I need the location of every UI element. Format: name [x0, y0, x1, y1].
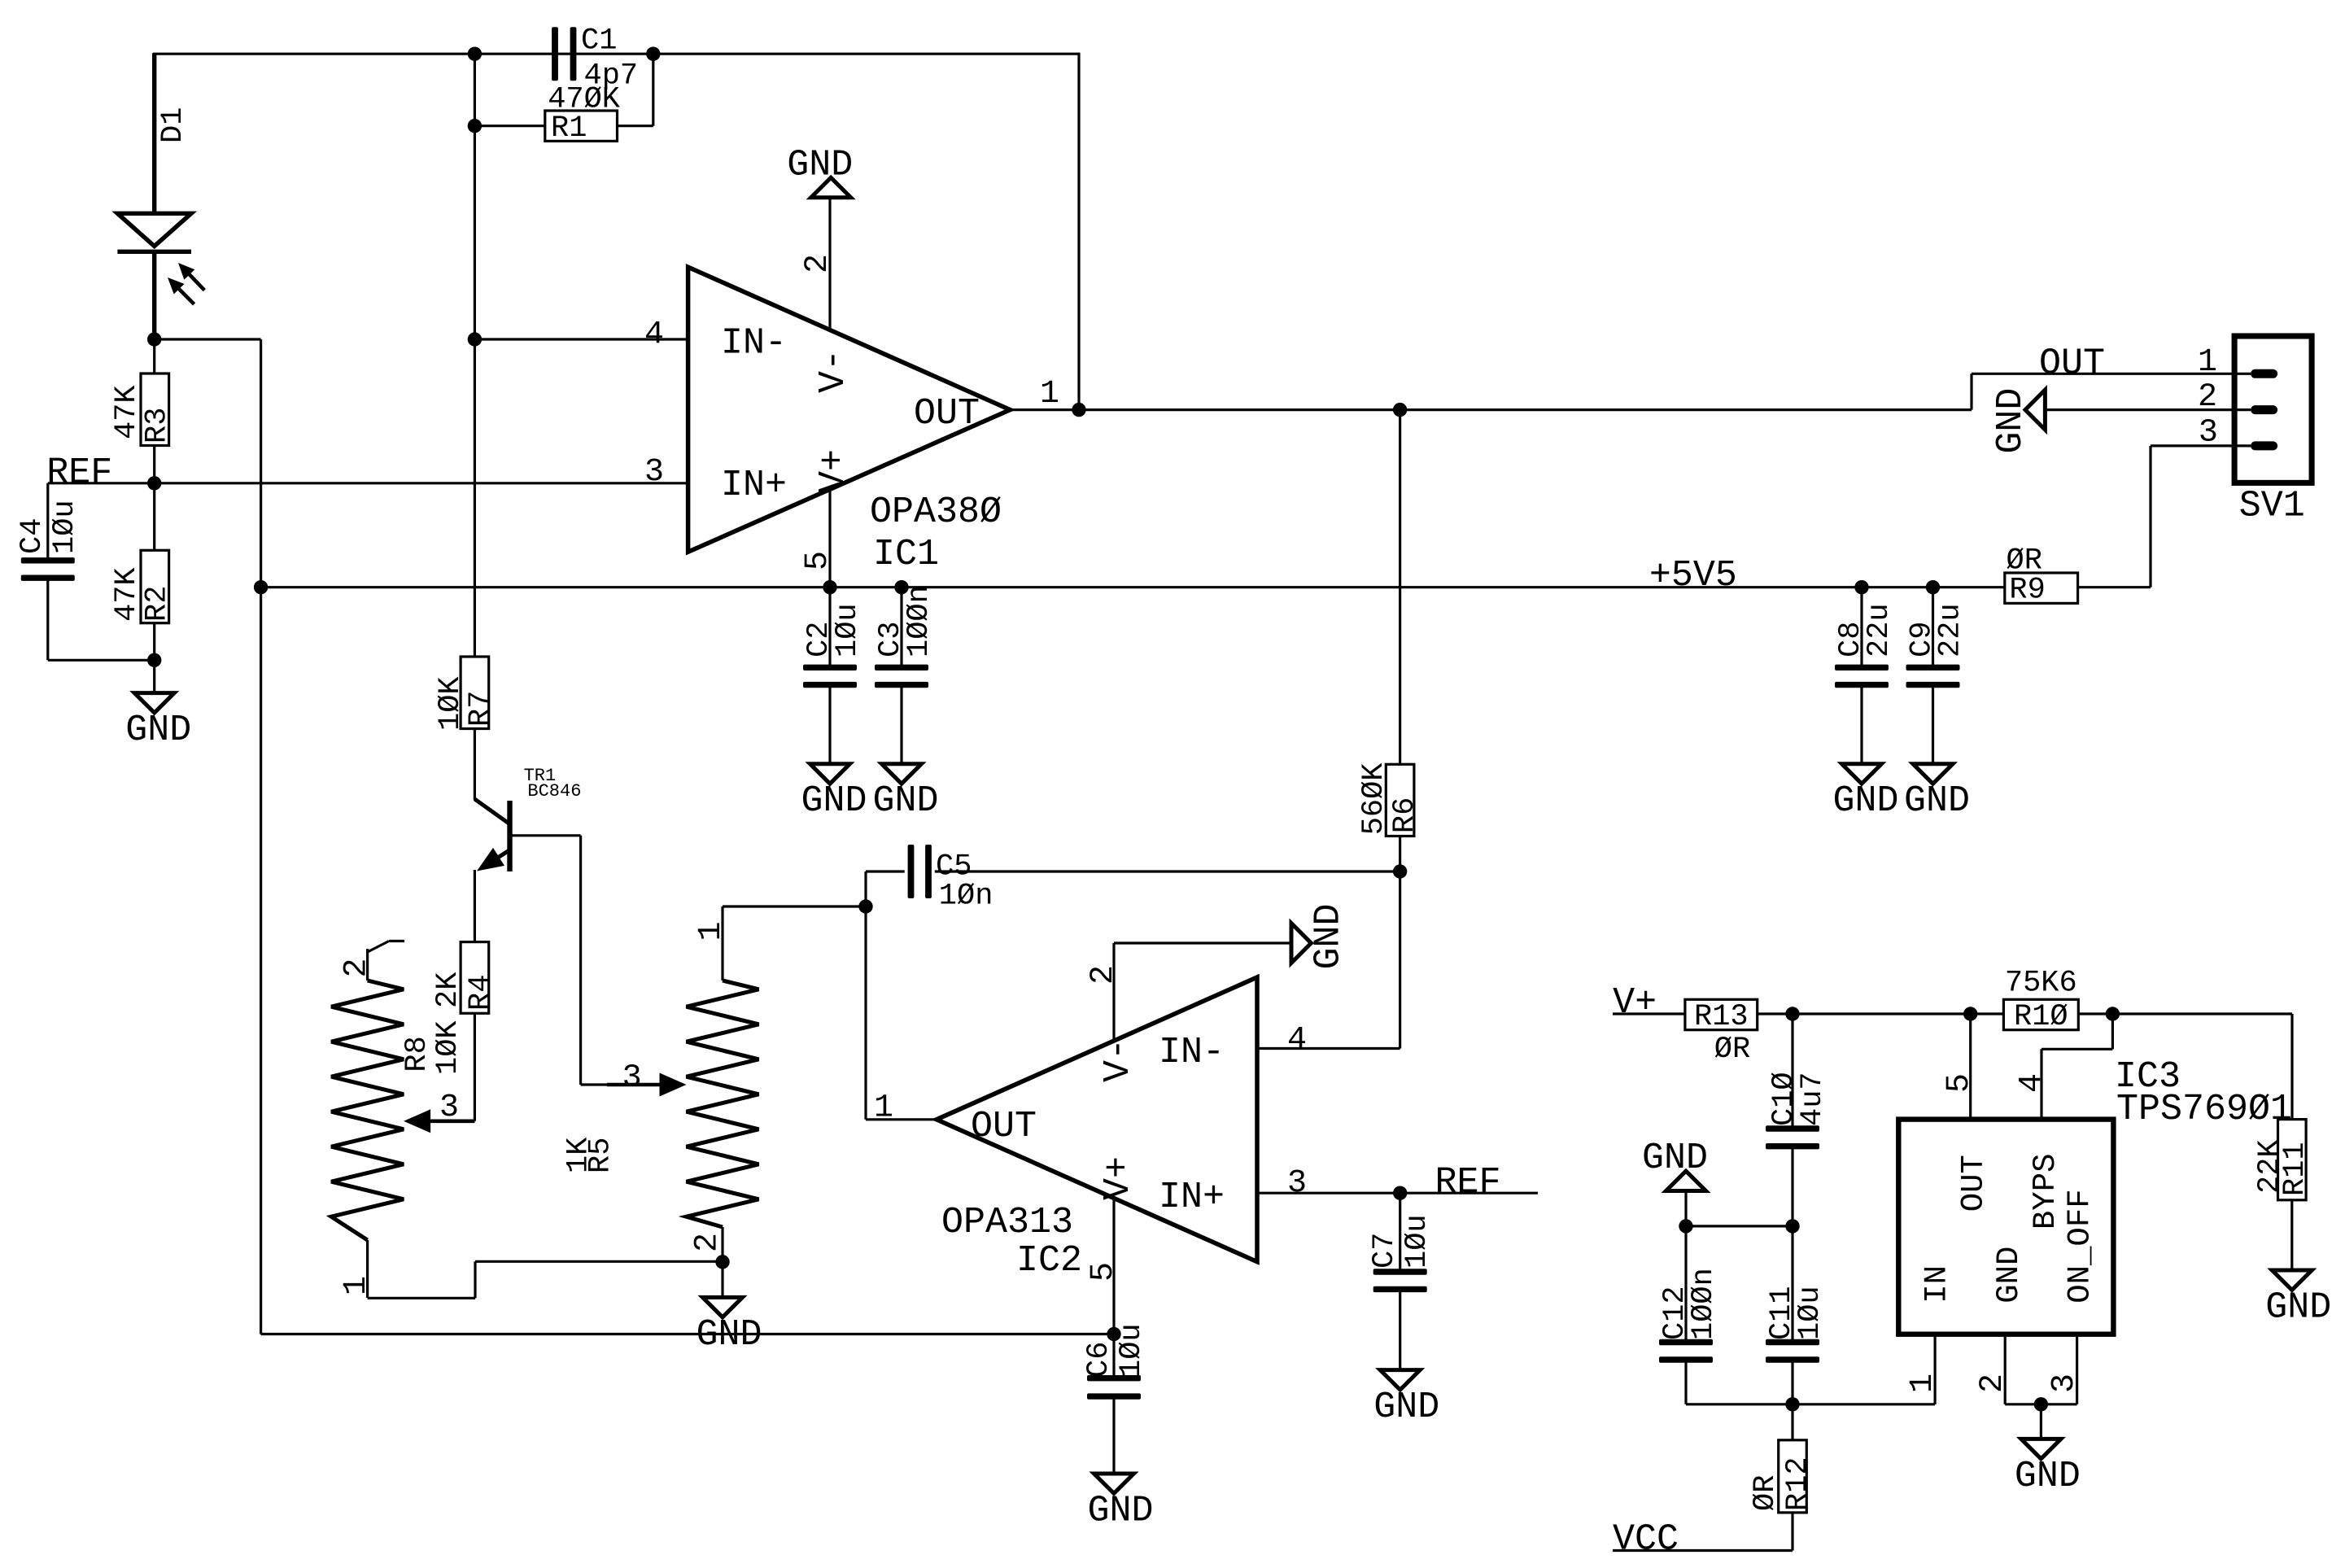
svg-text:1Øu: 1Øu: [1400, 1214, 1435, 1269]
pin number 4 of IC2: [1287, 1022, 1307, 1059]
capacitor C8 22u: [1834, 587, 1897, 764]
resistor R13 0R: [1685, 999, 1758, 1067]
pin label IN+ of IC2: [1159, 1177, 1225, 1218]
capacitor C10 4u7: [1766, 1014, 1830, 1226]
svg-text:GND: GND: [1087, 1490, 1153, 1531]
pin number 4 of IC1: [644, 317, 664, 353]
resistor R11 22K: [2253, 1120, 2312, 1200]
svg-text:OUT: OUT: [2039, 343, 2105, 384]
pin label IN- of IC2: [1159, 1032, 1225, 1073]
svg-text:C4: C4: [15, 518, 50, 554]
svg-text:GND: GND: [1642, 1138, 1708, 1179]
svg-text:GND: GND: [125, 710, 191, 751]
svg-text:R3: R3: [141, 408, 175, 443]
wire IC2 pin 3 to REF: [1257, 1192, 1538, 1195]
junction bus / C9: [1926, 580, 1940, 594]
svg-text:4: 4: [2014, 1073, 2050, 1093]
junction IC2 pin5 / C6: [1107, 1327, 1120, 1341]
junction VCC rail / R12: [1785, 1397, 1799, 1411]
junction R2 bottom / C4: [147, 653, 161, 667]
junction REF / C7: [1393, 1186, 1407, 1200]
capacitor C9 22u: [1906, 587, 1968, 764]
wire VCC rail to IC3 pin 1: [1686, 1403, 1935, 1405]
svg-text:4u7: 4u7: [1796, 1072, 1830, 1126]
capacitor C1 4p7: [552, 24, 638, 94]
svg-text:1Øn: 1Øn: [939, 880, 993, 914]
capacitor C7 10u: [1368, 1193, 1435, 1369]
junction bus / C8: [1854, 580, 1868, 594]
ground below R11: [2265, 1270, 2331, 1328]
svg-text:3: 3: [2199, 415, 2218, 452]
svg-text:GND: GND: [872, 780, 938, 822]
svg-text:GND: GND: [1990, 388, 2032, 454]
wire R5 pin 1 to C5 node: [723, 905, 866, 907]
pin number 2 of IC1 (rotated): [800, 254, 836, 273]
svg-text:4: 4: [1287, 1022, 1307, 1059]
pin number 2 of IC3 (rotated): [1975, 1374, 2011, 1393]
pin label IN+ of IC1: [721, 465, 787, 506]
ground right of IC2 pin 2: [1291, 903, 1349, 969]
svg-text:GND: GND: [2015, 1456, 2081, 1497]
capacitor C12 100n: [1658, 1226, 1721, 1404]
svg-text:3: 3: [1287, 1165, 1307, 1202]
pin number 1 of IC3 (rotated): [1905, 1374, 1941, 1393]
wire TR1 emitter to R4: [474, 870, 476, 942]
svg-text:4: 4: [644, 317, 664, 353]
svg-text:R11: R11: [2278, 1142, 2312, 1196]
wire ground to C12 top junction: [1684, 1191, 1687, 1226]
capacitor C2 10u: [802, 587, 865, 764]
junction V+ rail / C10: [1785, 1007, 1799, 1020]
svg-text:IN+: IN+: [721, 465, 787, 506]
junction bus / C2: [823, 580, 836, 594]
svg-text:V-: V-: [813, 349, 854, 393]
resistor R2 47K: [110, 550, 175, 622]
svg-text:2: 2: [690, 1233, 727, 1252]
svg-text:3: 3: [622, 1060, 642, 1097]
svg-text:OUT: OUT: [971, 1106, 1037, 1147]
svg-text:2: 2: [1975, 1374, 2011, 1393]
node V+ label: [1613, 982, 1657, 1024]
wire IC1 pin 4 IN-: [474, 338, 688, 340]
junction feedback column / IN- wire: [468, 332, 482, 346]
svg-text:R9: R9: [2009, 574, 2045, 608]
node VCC label: [1613, 1519, 1679, 1561]
svg-text:R8: R8: [400, 1036, 435, 1072]
label OPA313 of IC2: [941, 1202, 1073, 1243]
wire R12 top: [1791, 1404, 1793, 1440]
svg-text:5: 5: [1085, 1262, 1122, 1282]
svg-text:V-: V-: [1098, 1038, 1139, 1082]
wire OUT jog up to SV1 pin 1: [1972, 373, 2234, 409]
svg-text:ØR: ØR: [1749, 1475, 1783, 1511]
svg-text:1Øu: 1Øu: [1793, 1286, 1828, 1340]
svg-text:1ØK: 1ØK: [434, 676, 468, 731]
wire +5V5 link to IC2 V+ (bottom rail): [261, 1333, 1114, 1335]
resistor R10 75K6: [2003, 967, 2078, 1035]
svg-text:R6: R6: [1388, 797, 1422, 833]
svg-text:SV1: SV1: [2239, 486, 2305, 527]
pin label V+ of IC1: [813, 449, 854, 493]
svg-text:IC2: IC2: [1016, 1240, 1082, 1282]
svg-text:V+: V+: [1613, 982, 1657, 1024]
svg-text:D1: D1: [156, 107, 190, 143]
node REF (right label): [1435, 1162, 1501, 1203]
wiper arrow of R5: [607, 1073, 687, 1097]
junction R5 pin1 wire / C5 branch: [858, 899, 872, 913]
svg-text:C6: C6: [1082, 1342, 1116, 1378]
svg-text:1: 1: [874, 1090, 893, 1127]
svg-text:OPA38Ø: OPA38Ø: [870, 491, 1002, 533]
svg-text:GND: GND: [1373, 1387, 1439, 1428]
wire SV1 pin 2 to ground: [2045, 408, 2234, 411]
wire R2 bottom: [153, 623, 155, 661]
svg-text:R1: R1: [551, 111, 587, 146]
junction R10 right / pin 4 branch: [2106, 1007, 2120, 1020]
svg-text:REF: REF: [1435, 1162, 1501, 1203]
wire feedback column (IN- node): [474, 54, 476, 657]
svg-text:+5V5: +5V5: [1649, 555, 1737, 596]
svg-text:GND: GND: [1832, 780, 1898, 822]
svg-text:BYPS: BYPS: [2028, 1153, 2063, 1230]
wire R12 bottom to VCC: [1613, 1513, 1793, 1551]
svg-text:OUT: OUT: [1956, 1155, 1992, 1212]
wire R1 right to top wire: [618, 54, 653, 126]
svg-text:V+: V+: [1098, 1156, 1139, 1200]
pin label V- of IC2: [1098, 1038, 1139, 1082]
pin number 1 of R5 (rotated): [693, 921, 730, 941]
svg-text:R7: R7: [464, 691, 498, 727]
wiper arrow of R8: [404, 1109, 474, 1133]
svg-text:ØR: ØR: [1714, 1033, 1750, 1067]
wire IC1 pin 1 OUT: [1010, 408, 1972, 411]
wire R4 bottom to R8 wiper: [430, 1013, 474, 1121]
wire R11 bottom to ground: [2290, 1200, 2293, 1270]
pin label V+ of IC2: [1098, 1156, 1139, 1200]
resistor R12 0R: [1749, 1440, 1815, 1513]
resistor R6 560K: [1357, 410, 1422, 871]
wire IC3 pin 2: [2005, 1334, 2041, 1404]
pin number 5 of IC1 (rotated): [800, 551, 836, 570]
junction top wire / C1 right: [646, 46, 660, 60]
junction C5 right / R6 bottom: [1393, 864, 1407, 878]
junction C12 top / GND link: [1679, 1219, 1692, 1233]
pin number 5 of IC3 (rotated): [1941, 1073, 1978, 1093]
junction C10 bottom / GND link: [1785, 1219, 1799, 1233]
junction OUT / vertical to top: [1072, 403, 1085, 417]
svg-text:C7: C7: [1368, 1233, 1402, 1269]
svg-text:GND: GND: [1904, 780, 1970, 822]
wire IC2 pin 5 V+ to bus link: [1112, 1199, 1115, 1334]
svg-text:ON_OFF: ON_OFF: [2062, 1189, 2098, 1303]
svg-text:R1Ø: R1Ø: [2014, 1000, 2068, 1034]
wire IC1 pin 5 V+ to +5V5 bus: [828, 489, 831, 587]
resistor R3 47K: [110, 373, 175, 446]
wire R13 right to IC3 pin 5 and R10: [1758, 1012, 2004, 1015]
pin number 4 of IC3 (rotated): [2014, 1073, 2050, 1093]
svg-text:GND: GND: [2265, 1286, 2331, 1328]
capacitor C3 100n: [874, 585, 937, 764]
resistor R7 10K: [434, 657, 498, 731]
pin number 5 of IC2 (rotated): [1085, 1262, 1122, 1282]
label IC1: [873, 534, 939, 575]
junction top wire / feedback column: [468, 46, 482, 60]
voltage regulator IC3 TPS76901 body: [1898, 1120, 2113, 1334]
wire +5V5 bus: [261, 586, 2005, 588]
wire SV1 pin 3 to R9: [2078, 446, 2235, 587]
wire C4 bottom to R2 bottom: [48, 659, 155, 662]
potentiometer R5 1K zigzag: [561, 906, 758, 1261]
svg-text:IN: IN: [1919, 1265, 1955, 1304]
wire R6 node down to IC2 pin 4: [1257, 871, 1400, 1049]
capacitor C5 10n: [866, 845, 1400, 914]
ground at SV1 pin 2: [1990, 388, 2045, 454]
label TPS76901 of IC3: [2116, 1089, 2292, 1130]
label IC2: [1016, 1240, 1082, 1282]
svg-text:GND: GND: [801, 780, 867, 822]
ground below C3: [872, 764, 938, 822]
svg-text:56ØK: 56ØK: [1357, 762, 1391, 836]
svg-text:1: 1: [1905, 1374, 1941, 1393]
svg-text:3: 3: [644, 454, 664, 491]
svg-text:REF: REF: [46, 452, 112, 494]
svg-text:47K: 47K: [110, 567, 144, 622]
pin number 1 of IC1: [1040, 376, 1059, 413]
svg-text:22u: 22u: [1934, 603, 1968, 657]
wire GND link C12-C10: [1686, 1225, 1793, 1227]
pin number 2 of R8 (rotated): [338, 958, 375, 977]
svg-text:IN-: IN-: [721, 323, 787, 365]
wire IC1 pin 2 V- to ground: [828, 198, 831, 330]
wire feedback top (D1 anode to C1/R1 to OUT column): [153, 53, 1079, 55]
svg-text:1Øu: 1Øu: [48, 500, 82, 554]
pin number 2 of R5 (rotated): [690, 1233, 727, 1252]
ground below IC3 pins 2-3: [2015, 1439, 2081, 1496]
wire R2 top: [153, 483, 155, 551]
svg-text:5: 5: [1941, 1073, 1978, 1093]
svg-text:3: 3: [2046, 1374, 2083, 1393]
svg-text:C1: C1: [581, 24, 617, 59]
svg-text:OUT: OUT: [914, 393, 980, 435]
pin number 1 of R8 (rotated): [338, 1276, 375, 1295]
op-amp IC1 OPA380 triangle: [688, 267, 1011, 552]
wire IC2 pin 2 V- to ground: [1114, 943, 1291, 1041]
pin number 1 of IC2: [874, 1090, 893, 1127]
pin number 2 of IC2 (rotated): [1085, 965, 1122, 985]
junction bus / C3: [894, 580, 908, 594]
wire IC3 pin 3: [2041, 1334, 2076, 1404]
wire OUT column vertical: [1077, 53, 1080, 410]
resistor R4 2K: [431, 942, 498, 1014]
svg-text:GND: GND: [1308, 903, 1349, 969]
ground below R2: [125, 693, 191, 751]
resistor R9 0R: [2005, 544, 2078, 607]
svg-text:R5: R5: [583, 1138, 618, 1173]
pin label IN- of IC1: [721, 323, 787, 365]
node +5V5 label: [1649, 555, 1737, 596]
wire IC3 pin 5: [1969, 1014, 1972, 1120]
wire REF rail (IN+ net): [48, 482, 688, 484]
wire R3 top: [153, 339, 155, 373]
wire R2 junction to ground: [153, 660, 155, 692]
label OPA380 of IC1: [870, 491, 1002, 533]
wire R7 bottom to TR1 collector: [474, 729, 476, 801]
svg-text:1Øu: 1Øu: [1115, 1323, 1149, 1378]
wire TR1 base to R5 wiper: [511, 836, 659, 1085]
wire R3 bottom to REF: [153, 446, 155, 483]
pin number 3 of IC2: [1287, 1165, 1307, 1202]
junction R1 left / feedback column: [468, 119, 482, 133]
pin number 3 of IC1: [644, 454, 664, 491]
svg-text:2: 2: [1085, 965, 1122, 985]
svg-text:IN-: IN-: [1159, 1032, 1225, 1073]
pin number 1 of SV1: [2198, 344, 2217, 381]
svg-text:R13: R13: [1694, 1000, 1749, 1034]
svg-text:75K6: 75K6: [2005, 967, 2077, 1001]
wire IC3 pin 4 branch: [2042, 1014, 2112, 1120]
wire to ground below IC3: [2040, 1404, 2042, 1439]
svg-text:GND: GND: [787, 144, 853, 186]
svg-text:OPA313: OPA313: [941, 1202, 1073, 1243]
ground below C8: [1832, 764, 1898, 822]
svg-text:1: 1: [2198, 344, 2217, 381]
wire R1 left: [474, 124, 544, 127]
node REF (left label): [46, 452, 112, 494]
capacitor C6 10u: [1082, 1323, 1149, 1474]
pin number 3 of R5: [622, 1060, 642, 1097]
wire R8/R5 ground link: [368, 1261, 723, 1298]
wire IC3 pin 1: [1934, 1334, 1937, 1404]
ground below C9: [1904, 764, 1970, 822]
ground above C12: [1642, 1138, 1708, 1190]
wire R10 right: [2078, 1012, 2292, 1015]
svg-text:47K: 47K: [110, 385, 144, 439]
ground below C6: [1087, 1474, 1153, 1531]
resistor R1 470K: [545, 82, 621, 146]
wire D1 cathode to left column: [155, 339, 261, 1334]
ground above IC1 pin 2: [787, 144, 853, 197]
svg-text:1: 1: [693, 921, 730, 941]
node OUT label: [2039, 343, 2105, 384]
svg-text:IC1: IC1: [873, 534, 939, 575]
label IC3: [2115, 1056, 2181, 1098]
svg-text:2: 2: [2198, 379, 2217, 416]
wire V+ to R13: [1613, 1012, 1685, 1015]
svg-text:R12: R12: [1781, 1457, 1815, 1511]
svg-text:IN+: IN+: [1159, 1177, 1225, 1218]
pin number 2 of SV1: [2198, 379, 2217, 416]
svg-text:1Øu: 1Øu: [831, 603, 865, 657]
pin number 3 of IC3 (rotated): [2046, 1374, 2083, 1393]
svg-text:1: 1: [338, 1276, 375, 1295]
svg-text:V+: V+: [813, 449, 854, 493]
junction left column / +5V5 bus: [254, 580, 268, 594]
ground below C7: [1373, 1370, 1439, 1428]
junction V+ rail / IC3 pin 5: [1963, 1007, 1977, 1020]
svg-text:GND: GND: [1991, 1247, 2027, 1304]
svg-text:R2: R2: [141, 586, 175, 622]
wire R10 node down to R11: [2290, 1014, 2293, 1120]
junction REF / R3-R2: [147, 476, 161, 490]
svg-text:TPS769Ø1: TPS769Ø1: [2116, 1089, 2292, 1130]
svg-text:22u: 22u: [1862, 603, 1897, 657]
junction OUT / R6: [1393, 403, 1407, 417]
svg-text:1ØØn: 1ØØn: [1687, 1268, 1721, 1340]
ground below C2: [801, 764, 867, 822]
svg-text:2K: 2K: [431, 972, 465, 1008]
connector SV1: [2234, 336, 2312, 527]
pin label V- of IC1: [813, 349, 854, 393]
svg-text:VCC: VCC: [1613, 1519, 1679, 1561]
pin label OUT of IC2: [971, 1106, 1037, 1147]
wire C5 left to IC2 OUT: [866, 871, 937, 1120]
svg-text:1ØK: 1ØK: [431, 1020, 465, 1075]
potentiometer R8 10K zigzag: [331, 941, 465, 1299]
svg-text:BC846: BC846: [527, 781, 581, 801]
capacitor C4 10u: [15, 483, 82, 661]
ground below R5 pin 2: [696, 1297, 762, 1355]
svg-text:2: 2: [338, 958, 375, 977]
junction R5 pin 2 / ground: [715, 1255, 729, 1269]
photodiode D1: [117, 53, 191, 339]
pin number 3 of SV1: [2199, 415, 2218, 452]
junction IC3 pins 2-3 ground: [2034, 1397, 2048, 1411]
svg-text:1ØØn: 1ØØn: [902, 585, 937, 657]
svg-text:1: 1: [1040, 376, 1059, 413]
capacitor C11 10u: [1765, 1226, 1828, 1404]
pin label OUT of IC1: [914, 393, 980, 435]
op-amp IC2 OPA313 triangle: [937, 977, 1257, 1262]
junction D1 cathode / R3 / left column: [147, 332, 161, 346]
svg-text:R4: R4: [464, 975, 498, 1011]
wire R5 pin2 to ground: [721, 1262, 723, 1298]
light arrows of photodiode D1: [168, 263, 204, 304]
pin number 3 of R8: [439, 1090, 459, 1126]
transistor TR1 BC846: [474, 766, 581, 871]
